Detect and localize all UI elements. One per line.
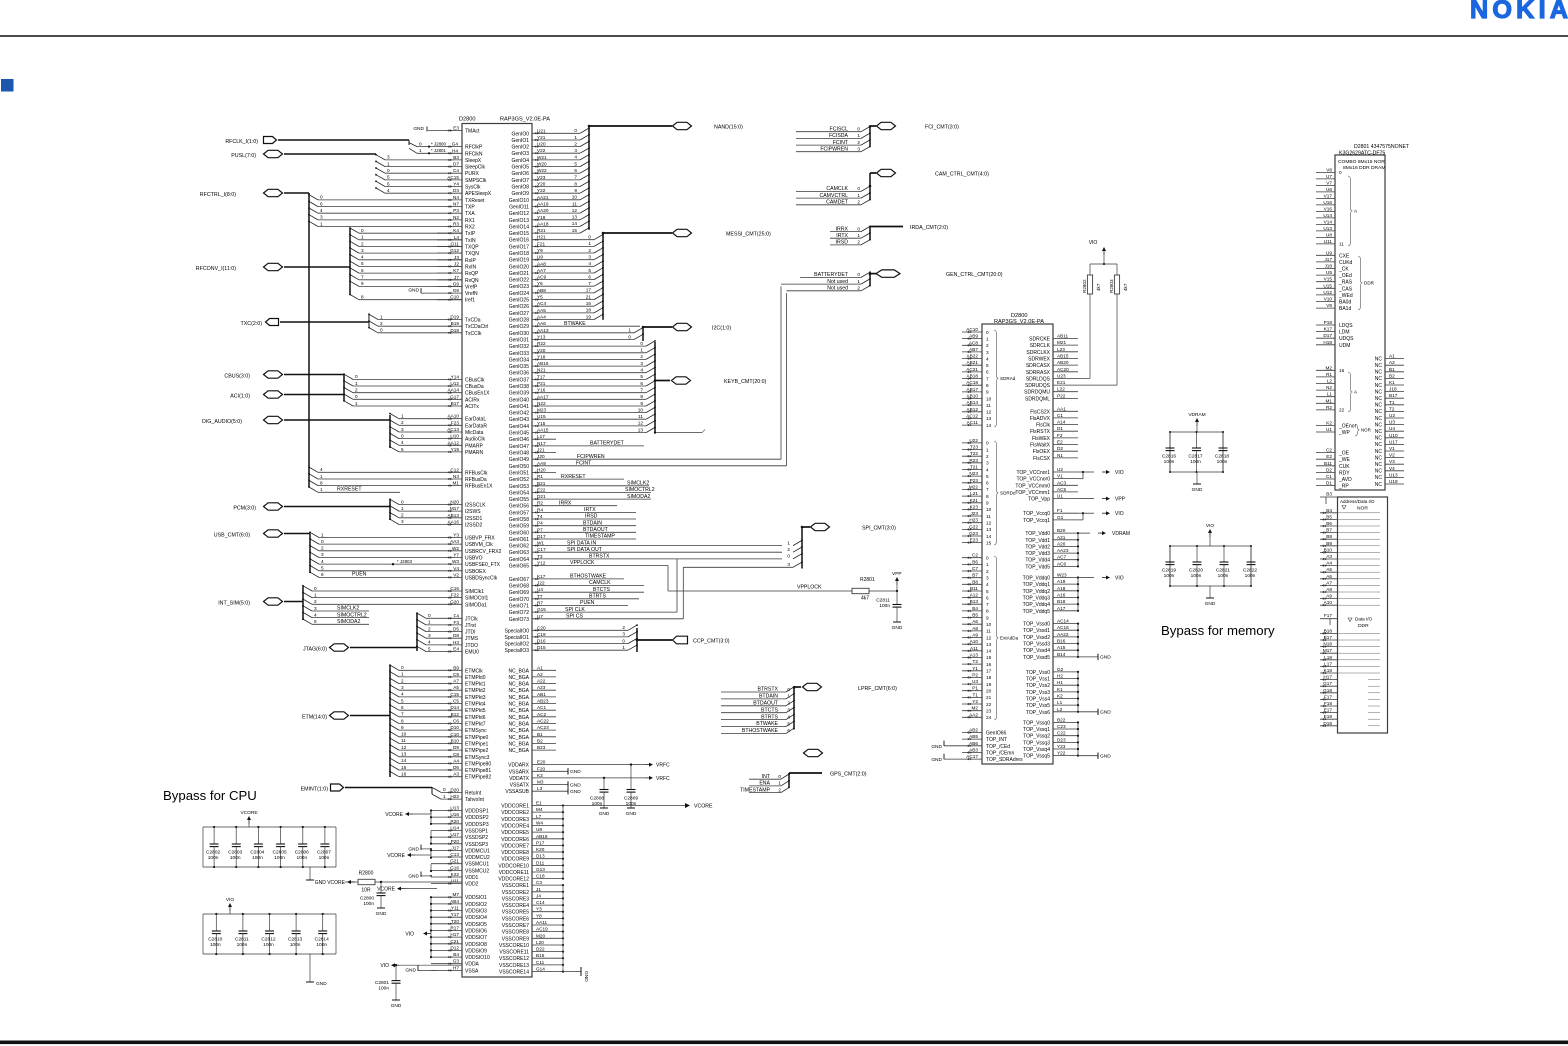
bracket NOR (1355, 424, 1360, 436)
svg-text:15: 15 (572, 228, 578, 233)
svg-text:C2: C2 (972, 553, 978, 558)
svg-text:RxQP: RxQP (465, 271, 479, 277)
svg-text:AA21: AA21 (537, 195, 549, 200)
svg-text:U16: U16 (450, 812, 459, 817)
svg-text:C2805: C2805 (273, 850, 287, 856)
net Not used connector wire (787, 290, 862, 292)
svg-text:F17: F17 (1324, 613, 1332, 618)
svg-text:A13: A13 (970, 653, 979, 658)
svg-text:_CK: _CK (1338, 267, 1349, 273)
svg-text:N4: N4 (453, 195, 459, 200)
svg-text:0: 0 (1339, 170, 1342, 175)
svg-text:PUEN: PUEN (580, 600, 595, 606)
svg-text:I2SSD2: I2SSD2 (465, 523, 482, 529)
svg-text:NC: NC (1375, 409, 1383, 415)
svg-text:SMPSClk: SMPSClk (465, 178, 487, 184)
svg-text:0: 0 (986, 330, 989, 335)
pin U14 VSSDSP1 (431, 830, 462, 832)
svg-text:5: 5 (321, 566, 324, 571)
bus entry wire (399, 709, 462, 711)
svg-text:TOP_Vss5: TOP_Vss5 (1026, 703, 1050, 709)
VIO feed TOP_VCCnor (1078, 471, 1083, 473)
svg-text:TOP_Vssq5: TOP_Vssq5 (1023, 754, 1050, 760)
svg-text:GenIO11: GenIO11 (509, 205, 529, 211)
svg-text:E23: E23 (970, 538, 979, 543)
svg-text:L17: L17 (537, 434, 545, 439)
svg-text:3: 3 (640, 361, 643, 366)
svg-text:PMARN: PMARN (465, 450, 483, 456)
svg-text:3: 3 (986, 576, 989, 581)
svg-text:D17: D17 (1323, 333, 1332, 338)
svg-text:CAMCLK: CAMCLK (589, 580, 611, 586)
row line (1338, 659, 1381, 661)
svg-text:U2: U2 (1057, 467, 1063, 472)
svg-text:LDQS: LDQS (1339, 323, 1353, 329)
svg-text:R3: R3 (453, 222, 459, 227)
svg-text:JTDI: JTDI (465, 630, 476, 636)
bus entry wire (399, 729, 462, 731)
svg-text:0: 0 (314, 586, 317, 591)
svg-text:10: 10 (572, 195, 578, 200)
svg-text:B4: B4 (453, 952, 459, 957)
svg-text:0: 0 (588, 235, 591, 240)
svg-text:D9: D9 (453, 745, 459, 750)
svg-text:VDD1: VDD1 (465, 875, 479, 881)
bus KEYB vertical (654, 342, 656, 433)
bus CAM vertical (869, 173, 871, 200)
svg-text:SDRLDQS: SDRLDQS (1026, 376, 1051, 382)
pin U9 (1316, 254, 1335, 256)
bus entry wire (426, 651, 462, 653)
VDRAM rail (1077, 533, 1079, 566)
svg-text:TOP_Vssq2: TOP_Vssq2 (1023, 734, 1050, 740)
svg-text:Not used: Not used (827, 279, 848, 285)
svg-text:C14: C14 (536, 900, 545, 905)
bus entry wire (399, 676, 462, 678)
bus connector I2C(1:0) (673, 323, 692, 330)
output connector CCP_CMT(3:0) (673, 636, 688, 644)
svg-text:0: 0 (321, 539, 324, 544)
capacitor C2806 (302, 826, 304, 828)
bus entry wire (318, 478, 462, 480)
svg-text:K3G2629ATC-DF75: K3G2629ATC-DF75 (1339, 151, 1385, 157)
svg-text:Y2: Y2 (972, 699, 978, 704)
svg-text:GenIO46: GenIO46 (509, 437, 530, 443)
svg-text:N2: N2 (453, 215, 459, 220)
svg-text:2: 2 (401, 678, 404, 683)
svg-text:NC: NC (1375, 370, 1383, 376)
capacitor C2801 (395, 965, 397, 980)
svg-text:5: 5 (401, 447, 404, 452)
pin K7 RxQP (437, 272, 462, 274)
svg-text:6: 6 (588, 274, 591, 279)
svg-text:RxQN: RxQN (465, 278, 479, 284)
VPP feed TOP_Vpp (1078, 498, 1094, 500)
bracket SDRAd (994, 330, 999, 427)
bus entry wire (350, 248, 359, 253)
svg-text:0: 0 (857, 226, 860, 231)
svg-text:5: 5 (640, 374, 643, 379)
pin G4 RFClkP (409, 143, 417, 147)
svg-text:A10: A10 (970, 639, 979, 644)
svg-text:15: 15 (986, 540, 992, 545)
svg-text:GenIO37: GenIO37 (509, 377, 530, 383)
bus entry wire (312, 597, 462, 599)
pin V9 (1316, 307, 1335, 309)
svg-text:V9: V9 (1326, 303, 1332, 308)
svg-text:6: 6 (361, 268, 364, 273)
svg-text:9: 9 (986, 390, 989, 395)
svg-text:T22: T22 (970, 451, 978, 456)
routing wire FCIPWREN to GEN_CTRL (780, 286, 782, 459)
net BTCTS wire (556, 591, 644, 593)
svg-text:BTWAKE: BTWAKE (756, 721, 778, 727)
svg-text:C17: C17 (537, 547, 546, 552)
svg-text:17: 17 (986, 669, 992, 674)
svg-text:B17: B17 (451, 401, 460, 406)
svg-text:5: 5 (428, 646, 431, 651)
svg-text:Y4: Y4 (453, 182, 459, 187)
bus entry wire (556, 146, 580, 148)
VDDCORE rail to VCORE (562, 806, 564, 879)
svg-text:K17: K17 (537, 574, 546, 579)
svg-text:GND: GND (599, 811, 610, 817)
svg-text:TOP_Vdd1: TOP_Vdd1 (1025, 538, 1050, 544)
svg-text:Y8: Y8 (536, 913, 542, 918)
svg-text:AB1: AB1 (537, 692, 546, 697)
capacitor C2813 (295, 913, 297, 915)
svg-text:A22: A22 (537, 679, 546, 684)
bus entry wire (556, 159, 580, 161)
svg-text:P22: P22 (1057, 393, 1066, 398)
pin C21 VDDSIO8 (431, 943, 462, 945)
svg-text:1: 1 (320, 487, 323, 492)
svg-text:NC: NC (1375, 376, 1383, 382)
svg-text:1: 1 (387, 161, 390, 166)
svg-text:11: 11 (572, 201, 577, 206)
svg-text:V1: V1 (1389, 446, 1395, 451)
svg-text:ExtAdDa: ExtAdDa (1000, 636, 1019, 641)
svg-text:U13: U13 (1389, 472, 1398, 477)
svg-text:RFCONV_I(11:0): RFCONV_I(11:0) (196, 266, 236, 272)
svg-text:P21: P21 (537, 381, 546, 386)
svg-text:D6: D6 (453, 765, 459, 770)
svg-text:TOP_Vdd0: TOP_Vdd0 (1025, 531, 1050, 537)
bus entry wire (556, 339, 634, 341)
svg-text:U1: U1 (1326, 427, 1332, 432)
svg-text:0: 0 (387, 168, 390, 173)
bus entry wire (556, 405, 646, 407)
svg-text:GenIO49: GenIO49 (509, 457, 530, 463)
svg-text:T1: T1 (973, 692, 979, 697)
svg-text:U3: U3 (1389, 420, 1395, 425)
bus entry wire (556, 232, 580, 234)
svg-text:4: 4 (588, 261, 591, 266)
svg-text:C2810: C2810 (208, 937, 222, 943)
svg-text:AA3: AA3 (450, 539, 459, 544)
svg-text:AB15: AB15 (1057, 353, 1069, 358)
svg-text:16: 16 (1339, 368, 1345, 373)
svg-text:G8: G8 (453, 288, 460, 293)
pin B13 (962, 603, 982, 605)
svg-text:RFBusClk: RFBusClk (465, 470, 488, 476)
svg-text:GenIO24: GenIO24 (509, 291, 530, 297)
svg-text:CBusClk: CBusClk (465, 377, 485, 383)
svg-text:JTMS: JTMS (465, 636, 479, 642)
svg-text:U18: U18 (1389, 479, 1398, 484)
svg-text:B14: B14 (1057, 652, 1066, 657)
svg-text:H17: H17 (450, 932, 459, 937)
svg-text:TOP_Vssq3: TOP_Vssq3 (1023, 740, 1050, 746)
svg-text:USBVM_Clk: USBVM_Clk (465, 542, 493, 548)
svg-text:C20: C20 (537, 625, 546, 630)
row stub (1368, 698, 1380, 700)
svg-text:FCINT: FCINT (833, 140, 849, 146)
svg-text:USBDSyncClk: USBDSyncClk (465, 575, 498, 581)
svg-text:K21: K21 (970, 498, 979, 503)
svg-text:EMU0: EMU0 (465, 650, 479, 656)
svg-text:9: 9 (401, 725, 404, 730)
pin D1 (1316, 485, 1335, 487)
svg-text:TOP_SDRAdres: TOP_SDRAdres (986, 757, 1023, 763)
pin P18 (1316, 324, 1335, 326)
svg-text:L4: L4 (454, 235, 460, 240)
svg-text:VDDCORE2: VDDCORE2 (501, 810, 529, 816)
svg-text:TOP_VCCnor1: TOP_VCCnor1 (1016, 470, 1050, 476)
svg-text:22: 22 (986, 702, 992, 707)
bus entry wire (353, 385, 462, 387)
row line (1338, 639, 1381, 641)
svg-text:V2: V2 (1389, 453, 1395, 458)
svg-text:ETMPipe81: ETMPipe81 (465, 768, 491, 774)
svg-text:AC20: AC20 (1057, 367, 1069, 372)
pin P2 (962, 676, 982, 678)
svg-text:ETMPkt5: ETMPkt5 (465, 708, 486, 714)
bus MESSI vertical (602, 233, 604, 320)
svg-text:AC9: AC9 (537, 275, 547, 280)
bus entry RetuInt (432, 787, 441, 792)
svg-text:6: 6 (387, 181, 390, 186)
pin B4 NOR data (1320, 512, 1338, 514)
svg-text:VCORE: VCORE (377, 887, 395, 893)
svg-text:CAM_CTRL_CMT(4:0): CAM_CTRL_CMT(4:0) (935, 172, 989, 178)
svg-text:GenIO55: GenIO55 (509, 497, 530, 503)
svg-text:VDDSIO6: VDDSIO6 (465, 929, 487, 935)
svg-text:IRRX: IRRX (836, 226, 849, 232)
bus entry wire (319, 543, 462, 545)
svg-text:C2: C2 (1326, 448, 1332, 453)
svg-text:GenIO58: GenIO58 (509, 517, 530, 523)
svg-text:RXRESET: RXRESET (561, 474, 586, 480)
svg-text:AB20: AB20 (1057, 360, 1069, 365)
svg-text:AB16: AB16 (537, 361, 549, 366)
pin L4 TxIN (437, 239, 462, 241)
svg-text:100n: 100n (274, 855, 285, 861)
svg-text:GND: GND (391, 1003, 402, 1009)
bus entry wire (556, 332, 634, 334)
svg-text:RFClkP: RFClkP (465, 145, 483, 151)
svg-text:GenIO34: GenIO34 (509, 357, 530, 363)
pin E17 DDR data (1320, 712, 1338, 714)
bus entry wire (556, 299, 594, 301)
svg-text:V14: V14 (1324, 219, 1333, 224)
svg-text:GND: GND (408, 288, 419, 294)
pin A4 NOR data (1320, 565, 1338, 567)
svg-text:C12: C12 (450, 467, 459, 472)
svg-text:1: 1 (640, 348, 643, 353)
svg-text:1: 1 (443, 794, 446, 799)
svg-text:CUK: CUK (1339, 464, 1350, 470)
svg-text:Y13: Y13 (537, 335, 546, 340)
svg-text:4: 4 (401, 440, 404, 445)
bus entry wire (385, 179, 462, 181)
svg-text:GenIO16: GenIO16 (509, 238, 530, 244)
svg-text:H23: H23 (969, 518, 978, 523)
blue revision square marker (1, 79, 14, 92)
svg-text:8Mx16 DDR DRAM: 8Mx16 DDR DRAM (1343, 165, 1385, 171)
svg-text:GenIO22: GenIO22 (509, 278, 530, 284)
svg-text:4: 4 (986, 582, 989, 587)
svg-text:A5: A5 (1326, 567, 1332, 572)
svg-text:AB19: AB19 (536, 834, 548, 839)
pin AB10 (962, 398, 982, 400)
svg-text:J21: J21 (537, 448, 545, 453)
svg-text:1: 1 (574, 135, 577, 140)
svg-text:I2SSCLK: I2SSCLK (465, 503, 486, 509)
svg-text:2: 2 (787, 547, 790, 552)
svg-text:CBusEn1X: CBusEn1X (465, 391, 490, 397)
net FCISDA connector wire (796, 137, 861, 139)
svg-text:TxIP: TxIP (465, 231, 476, 237)
svg-text:NC: NC (1375, 403, 1383, 409)
svg-text:AA13: AA13 (537, 328, 549, 333)
svg-text:FCIPWREN: FCIPWREN (577, 454, 605, 460)
pin V7 (1316, 184, 1335, 186)
svg-text:A7: A7 (453, 679, 459, 684)
svg-text:4: 4 (321, 559, 324, 564)
bus entry wire (350, 295, 359, 300)
pin M1 (1316, 402, 1335, 404)
svg-text:8: 8 (986, 383, 989, 388)
wire SPI bit3 (683, 566, 793, 568)
svg-text:EMINT(1:0): EMINT(1:0) (301, 786, 329, 792)
svg-text:2: 2 (857, 200, 860, 205)
svg-text:SIMODa1: SIMODa1 (465, 602, 487, 608)
svg-text:4: 4 (320, 208, 323, 213)
GND tie VSSMCU (430, 864, 432, 871)
svg-text:NC: NC (1375, 449, 1383, 455)
net VPPLOCK horizontal to R2801 (668, 590, 852, 592)
svg-text:VDDCORE4: VDDCORE4 (501, 824, 529, 830)
svg-text:F1: F1 (1057, 508, 1063, 513)
svg-text:VDDARX: VDDARX (508, 763, 530, 769)
svg-text:A11: A11 (970, 646, 978, 651)
pin T21 (962, 469, 982, 471)
svg-text:ETMSync3: ETMSync3 (465, 755, 490, 761)
VIO feed VDDA (393, 964, 399, 966)
svg-text:_CAS: _CAS (1338, 286, 1353, 292)
pin M2 (962, 710, 982, 712)
svg-text:_OEd: _OEd (1338, 273, 1352, 279)
capacitor C2822 (1250, 546, 1252, 562)
svg-text:GenIO12: GenIO12 (509, 211, 530, 217)
net SPI CS wire (556, 618, 683, 620)
net SPI DATA OUT wire (556, 551, 782, 553)
svg-text:NC: NC (1375, 462, 1383, 468)
bus entry wire (556, 365, 646, 367)
GND rail Vss (1077, 672, 1079, 712)
svg-text:VIO: VIO (1206, 523, 1215, 529)
row line (1338, 538, 1381, 540)
svg-text:AB4: AB4 (450, 899, 459, 904)
pin AB7 (962, 351, 982, 353)
pin Y2 (962, 703, 982, 705)
svg-text:2: 2 (778, 787, 781, 792)
capacitor C2802 (213, 826, 215, 828)
svg-text:L2: L2 (1327, 379, 1333, 384)
bus connector GEN_CTRL_CMT(20:0) (876, 270, 900, 277)
svg-text:C22: C22 (1057, 731, 1066, 736)
pin C2 (1316, 452, 1335, 454)
bus entry wire (556, 418, 646, 420)
svg-text:H7: H7 (453, 965, 459, 970)
svg-text:VDDCORE11: VDDCORE11 (499, 870, 529, 876)
svg-text:10: 10 (401, 732, 407, 737)
svg-text:C2817: C2817 (1188, 454, 1202, 460)
net IRTX wire (556, 511, 636, 513)
pin U3 (962, 683, 982, 685)
svg-text:2: 2 (314, 599, 317, 604)
svg-text:D20: D20 (450, 787, 459, 792)
capacitor C2811 (896, 591, 898, 605)
svg-text:VDDSIO1: VDDSIO1 (465, 895, 487, 901)
row line (1338, 584, 1381, 586)
pin C7 (962, 570, 982, 572)
bus entry wire (556, 385, 646, 387)
pin E2 (1316, 458, 1335, 460)
svg-text:J18: J18 (1324, 264, 1332, 269)
svg-text:C23: C23 (1057, 724, 1066, 729)
bus entry wire (399, 769, 462, 771)
svg-text:BTDAIN: BTDAIN (583, 520, 602, 526)
svg-text:NC: NC (1375, 469, 1383, 475)
svg-text:TOP_Vssd0: TOP_Vssd0 (1023, 622, 1050, 628)
svg-text:NC: NC (1375, 389, 1383, 395)
net SPI CLK wire (556, 611, 677, 613)
svg-text:T20: T20 (451, 919, 459, 924)
svg-text:GenIO35: GenIO35 (509, 364, 530, 370)
svg-text:RFCTRL_I(8:0): RFCTRL_I(8:0) (200, 192, 236, 198)
svg-text:GenIO70: GenIO70 (509, 597, 530, 603)
pin B11 (962, 590, 982, 592)
svg-text:P3: P3 (453, 208, 459, 213)
svg-text:TXP: TXP (465, 205, 475, 211)
svg-text:W1: W1 (537, 541, 544, 546)
svg-text:AC1: AC1 (537, 705, 547, 710)
svg-text:ETMPipe2: ETMPipe2 (465, 748, 489, 754)
svg-text:AC6: AC6 (1057, 561, 1067, 566)
svg-text:NC_BGA: NC_BGA (508, 728, 529, 734)
pin J23 (962, 515, 982, 517)
bus entry wire (556, 172, 580, 174)
vertical bus USB (309, 534, 311, 574)
svg-text:GenIO5: GenIO5 (511, 165, 529, 171)
svg-text:C8: C8 (453, 752, 459, 757)
pin AC10 (962, 331, 982, 333)
svg-text:DDR: DDR (1358, 623, 1369, 629)
pin G12 TXQN (437, 252, 462, 254)
pin U11 (1316, 243, 1335, 245)
